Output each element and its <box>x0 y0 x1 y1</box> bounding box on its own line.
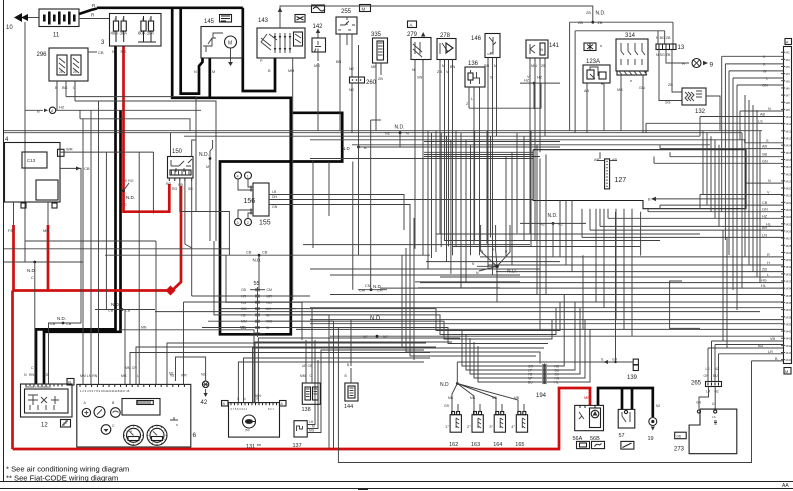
wire bus y154 <box>424 154 533 156</box>
svg-text:136: 136 <box>468 61 479 67</box>
wire thick drop to 143 pin B <box>243 8 275 91</box>
wire drop x153 <box>152 152 154 213</box>
svg-text:CB: CB <box>246 251 252 255</box>
svg-text:MG: MG <box>267 320 273 324</box>
svg-text:MG: MG <box>309 429 315 433</box>
svg-text:BG: BG <box>62 86 68 90</box>
unit4 bottom pins <box>13 221 15 224</box>
svg-text:HZ: HZ <box>524 79 530 83</box>
icon box 255 M <box>360 5 371 12</box>
svg-text:11: 11 <box>53 33 60 39</box>
wire feed V y194 <box>700 194 784 196</box>
svg-text:60A: 60A <box>138 31 146 36</box>
svg-text:R: R <box>68 380 71 385</box>
wire feed BR y230 <box>590 229 784 231</box>
svg-text:M29: M29 <box>786 251 792 255</box>
svg-text:MM: MM <box>300 374 306 378</box>
svg-text:164: 164 <box>493 442 502 448</box>
svg-text:HR: HR <box>241 295 247 299</box>
svg-text:VB: VB <box>770 337 776 341</box>
svg-text:CB: CB <box>762 201 768 205</box>
svg-text:DH: DH <box>272 195 278 199</box>
wire feed N y183 <box>746 182 784 184</box>
junction K RG on red wire <box>122 189 125 192</box>
wire 150 CB down right <box>180 181 230 255</box>
svg-text:0 7 6 5 4 3 2 1: 0 7 6 5 4 3 2 1 <box>231 407 248 411</box>
svg-text:M25: M25 <box>786 222 792 226</box>
145 ground pin <box>230 48 232 62</box>
wires left of 194 <box>462 330 536 366</box>
junction node B <box>357 146 360 149</box>
svg-text:163: 163 <box>471 442 480 448</box>
lamp 9 <box>692 59 701 68</box>
icon boxes beside 131 <box>222 401 229 407</box>
wire echelon 4 <box>265 328 548 344</box>
svg-text:M: M <box>228 41 232 47</box>
svg-text:GN: GN <box>762 208 768 212</box>
svg-text:M: M <box>442 64 445 68</box>
wire feed y353 <box>719 353 784 355</box>
svg-text:WR: WR <box>66 147 73 152</box>
svg-text:3: 3 <box>237 221 239 225</box>
svg-text:R: R <box>767 253 770 257</box>
svg-text:M: M <box>785 369 788 374</box>
svg-text:RG: RG <box>166 182 172 186</box>
143 internals crosshatch <box>261 34 277 50</box>
svg-text:MG: MG <box>314 64 320 68</box>
svg-text:N2: N2 <box>169 372 174 376</box>
wire feed SB y156 <box>670 156 784 158</box>
svg-text:N.D.: N.D. <box>57 316 66 321</box>
svg-text:SN: SN <box>417 76 423 80</box>
wire echelon 5 <box>402 255 544 348</box>
icon box A top <box>408 21 417 28</box>
svg-text:1°: 1° <box>445 424 449 429</box>
svg-text:Km: Km <box>128 429 133 433</box>
wire 132 right <box>706 96 720 131</box>
svg-text:30A: 30A <box>120 31 128 36</box>
icon box 123A <box>584 43 596 51</box>
svg-text:FB: FB <box>8 228 13 233</box>
screw terminal 42 <box>202 381 208 387</box>
wire feed y341 <box>712 340 784 342</box>
wire red relay 150 pin RG down to junction <box>171 186 182 291</box>
wire red from unit 4 left pin down to bottom bus <box>12 225 15 291</box>
145 internals: coil and motor <box>225 36 237 48</box>
icon box 57 <box>621 441 634 449</box>
svg-text:GN: GN <box>639 86 645 90</box>
svg-text:** See Fiat-CODE wiring diagra: ** See Fiat-CODE wiring diagram <box>6 474 118 483</box>
svg-text:M21: M21 <box>786 194 792 198</box>
svg-text:GN: GN <box>762 84 768 88</box>
wire bundle right more <box>702 131 704 195</box>
svg-text:06: 06 <box>677 434 682 439</box>
junction CB ND <box>105 254 430 256</box>
cluster gauge clock <box>94 407 105 418</box>
svg-text:M42: M42 <box>786 344 792 348</box>
wire thin x352 <box>352 162 354 290</box>
unit 273 <box>689 409 737 454</box>
svg-text:A: A <box>410 23 413 28</box>
wire feed y312 <box>155 311 760 313</box>
unit 142 <box>312 38 326 52</box>
svg-text:57: 57 <box>619 433 625 439</box>
svg-text:139: 139 <box>627 375 638 381</box>
svg-text:BN: BN <box>336 60 342 64</box>
svg-text:G: G <box>124 203 127 207</box>
relay 145 <box>201 27 243 59</box>
wire verticals x410 <box>410 223 536 356</box>
junction star ND <box>481 225 497 266</box>
146 pins <box>487 58 489 61</box>
svg-text:M34: M34 <box>786 287 792 291</box>
wire thick fuse N down left side <box>36 46 116 384</box>
terminal 19 <box>649 418 657 426</box>
svg-text:N.D.: N.D. <box>395 125 405 131</box>
svg-text:GR: GR <box>444 404 450 408</box>
cluster odometer box <box>122 399 160 416</box>
svg-text:CN: CN <box>365 284 371 288</box>
svg-text:N.D.: N.D. <box>253 258 262 263</box>
svg-text:M7: M7 <box>786 94 790 98</box>
wire feed L y277 <box>440 276 784 278</box>
circled pins 3 2 <box>235 219 242 226</box>
svg-text:19: 19 <box>648 436 654 442</box>
icon box in unit 4 <box>58 149 65 156</box>
svg-text:GN: GN <box>696 401 702 405</box>
svg-text:M16: M16 <box>786 158 792 162</box>
svg-text:M13: M13 <box>786 137 792 141</box>
wire unit4 CB right <box>60 168 81 323</box>
svg-text:b: b <box>150 17 152 21</box>
wire echelon 6 <box>406 248 540 364</box>
wire feed ZB y271 <box>496 271 784 273</box>
wire 296 pin B down <box>56 81 58 84</box>
injector 165 <box>516 415 527 433</box>
svg-text:M26: M26 <box>786 229 792 233</box>
wire ZB right branch down <box>672 22 674 44</box>
ground arrow 10 <box>14 13 22 22</box>
svg-text:10: 10 <box>6 25 13 31</box>
svg-text:CB: CB <box>98 50 104 55</box>
svg-text:M: M <box>494 64 497 68</box>
svg-text:131 **: 131 ** <box>246 444 262 450</box>
wire feed GN y211 <box>648 211 784 213</box>
svg-text:145: 145 <box>204 19 215 25</box>
svg-text:MM: MM <box>288 69 294 73</box>
circled pins 4 1 <box>235 172 242 179</box>
svg-text:(M): (M) <box>245 428 250 432</box>
svg-text:SG: SG <box>665 101 671 105</box>
svg-text:ZB: ZB <box>541 64 546 68</box>
wire feed y336 <box>330 335 784 337</box>
wire drop x139 <box>138 152 140 384</box>
svg-text:N2: N2 <box>656 404 660 408</box>
143 pin MM down <box>292 58 294 300</box>
coil unit 138 <box>302 383 320 404</box>
svg-text:MR: MR <box>267 295 273 299</box>
unit 57 <box>618 409 635 428</box>
svg-text:N2: N2 <box>385 132 390 136</box>
wire drop x106 <box>105 152 107 309</box>
wire battery to fuse box R <box>79 9 97 15</box>
12 top pins <box>25 384 27 387</box>
wire bus y156 <box>424 156 540 158</box>
svg-text:RG: RG <box>121 49 127 54</box>
wire C y101 <box>75 101 216 241</box>
svg-text:*: * <box>630 80 632 86</box>
svg-text:194: 194 <box>536 393 547 399</box>
svg-text:BR: BR <box>762 226 768 230</box>
svg-text:AR: AR <box>762 145 768 149</box>
wire 150 SB down <box>185 181 192 248</box>
wire thick drop x172 to main feed <box>172 8 342 335</box>
svg-text:N: N <box>194 70 197 74</box>
svg-text:GR: GR <box>612 358 618 362</box>
svg-text:*: * <box>601 83 603 89</box>
svg-text:K RG: K RG <box>125 179 134 183</box>
wires above 265 <box>707 348 709 382</box>
svg-text:143: 143 <box>258 18 269 24</box>
svg-text:N2: N2 <box>349 88 354 92</box>
svg-text:N: N <box>112 49 115 54</box>
connector strip A right <box>784 47 792 364</box>
273 pins <box>697 410 700 413</box>
svg-text:N2: N2 <box>363 335 368 339</box>
wire y30 branch <box>574 31 576 133</box>
svg-text:ZB: ZB <box>578 21 583 25</box>
control unit 4 <box>5 143 61 203</box>
svg-text:C: C <box>31 276 34 280</box>
icon box 145 <box>220 15 232 23</box>
wire mesh center horizontals <box>436 233 700 235</box>
junction N2 y336 <box>376 335 379 338</box>
svg-text:MN: MN <box>141 326 147 330</box>
wire from arrow 10 down <box>24 22 26 262</box>
svg-text:SB: SB <box>762 153 768 157</box>
svg-text:M17: M17 <box>786 165 792 169</box>
wire thin x329 <box>328 162 330 217</box>
143 top arrow <box>279 9 281 28</box>
resistor unit 132 <box>682 88 706 105</box>
instrument cluster 6 <box>77 384 191 447</box>
svg-text:138: 138 <box>302 407 311 413</box>
wire 13 to lamp 9 <box>666 50 689 64</box>
wire feed HG y282 <box>420 282 784 284</box>
svg-text:*: * <box>600 45 602 51</box>
wire feed R y257 <box>480 256 784 258</box>
wire feed B y361 <box>752 360 784 362</box>
svg-text:M11: M11 <box>786 122 792 126</box>
svg-text:c: c <box>142 17 144 21</box>
wire feed AB y116 <box>700 116 784 118</box>
wire mesh center verticals <box>539 159 541 331</box>
wire feed S y142 <box>745 142 784 144</box>
wire bundle right extra <box>744 95 746 257</box>
injector 164 <box>494 415 505 433</box>
svg-text:M14: M14 <box>786 144 792 148</box>
56 top pins <box>579 405 581 408</box>
symbol 142 arrow <box>317 31 319 38</box>
wire feed y300 <box>184 301 784 303</box>
svg-text:L: L <box>767 273 769 277</box>
svg-text:CM: CM <box>241 307 247 311</box>
injector feed diagonals <box>452 384 457 415</box>
137 right pins <box>307 340 315 425</box>
icon box B left of cluster <box>67 379 74 386</box>
svg-text:N SG ZB: N SG ZB <box>656 53 671 57</box>
svg-text:v: v <box>176 422 178 427</box>
svg-text:M43: M43 <box>786 351 792 355</box>
svg-text:L: L <box>471 97 473 101</box>
wire y244 <box>303 244 530 246</box>
wire bracket x669 <box>670 281 700 328</box>
icon box A <box>785 39 792 45</box>
wire 296 pin C down <box>74 81 76 84</box>
svg-text:123A: 123A <box>586 59 600 65</box>
wire right lower verticals <box>722 230 724 341</box>
icon boxes below 56 <box>577 441 590 448</box>
svg-text:L: L <box>766 77 768 81</box>
cluster fuel pump symbol <box>101 425 111 435</box>
switch unit 143 <box>257 28 305 58</box>
svg-text:N.D: N.D <box>342 146 351 151</box>
svg-text:M41: M41 <box>786 337 792 341</box>
svg-text:GN: GN <box>272 205 278 209</box>
svg-text:M: M <box>267 313 270 317</box>
wire feed LN y237 <box>582 236 784 238</box>
svg-text:265: 265 <box>691 381 702 387</box>
wire 255 N2 down through 260 <box>351 34 353 77</box>
wire thin x313 <box>312 160 314 248</box>
wire bus y139 <box>310 139 746 141</box>
svg-text:MM: MM <box>241 320 247 324</box>
svg-text:141: 141 <box>549 43 560 49</box>
150 pins bottom <box>168 178 170 181</box>
wire bus y141 <box>424 141 560 143</box>
svg-text:M5: M5 <box>786 79 790 83</box>
wire echelon 1 <box>265 302 590 331</box>
wire BG y96 <box>66 97 196 212</box>
279 pins <box>414 60 416 63</box>
wire red bottom bus to ignition 56 <box>13 388 591 449</box>
svg-text:M20: M20 <box>786 187 792 191</box>
border frame left <box>3 0 5 481</box>
svg-text:M24: M24 <box>786 215 792 219</box>
svg-text:N2: N2 <box>383 335 388 339</box>
svg-text:A B C: A B C <box>487 52 494 56</box>
wire red from unit 4 right pin <box>47 225 50 291</box>
relay unit 296 <box>49 48 88 81</box>
wire mesh extra horizontals <box>426 261 560 263</box>
tiny mark bottom middle <box>358 489 368 491</box>
svg-text:2: 2 <box>466 102 468 106</box>
svg-text:M15: M15 <box>786 151 792 155</box>
svg-text:6: 6 <box>193 432 197 439</box>
svg-text:12: 12 <box>41 423 48 429</box>
svg-text:ZB: ZB <box>586 11 591 15</box>
svg-text:314: 314 <box>625 33 636 39</box>
svg-text:335: 335 <box>371 32 382 38</box>
injector 163 <box>472 415 483 433</box>
wire ZB left branch down <box>569 22 571 131</box>
svg-text:M3: M3 <box>786 65 790 69</box>
svg-text:MB: MB <box>470 396 476 400</box>
svg-text:260: 260 <box>366 80 377 86</box>
wire feed y294 <box>330 294 784 296</box>
wire bus y132 <box>4 132 742 134</box>
svg-text:LB: LB <box>272 190 277 194</box>
icon box 12 <box>61 420 71 428</box>
svg-text:MN: MN <box>531 64 537 68</box>
wire feed AR y148 <box>660 148 784 150</box>
svg-text:N.D.: N.D. <box>548 213 558 219</box>
svg-text:CB: CB <box>262 251 268 255</box>
svg-text:137: 137 <box>293 443 302 449</box>
relay 255 <box>336 17 357 34</box>
svg-text:30A: 30A <box>147 31 155 36</box>
svg-text:M18: M18 <box>786 172 792 176</box>
svg-text:UD CB: UD CB <box>302 364 313 368</box>
svg-text:4°: 4° <box>511 424 515 429</box>
svg-text:155: 155 <box>259 220 271 227</box>
svg-text:MM CN: MM CN <box>125 366 137 370</box>
svg-text:HZ: HZ <box>59 105 65 110</box>
svg-text:SB: SB <box>188 187 193 191</box>
svg-text:MB: MB <box>371 65 377 69</box>
svg-text:MN: MN <box>240 326 246 330</box>
svg-text:L: L <box>137 374 139 378</box>
wire red from fuse 3 RG to relay 150 <box>124 46 170 212</box>
svg-text:A: A <box>786 40 789 45</box>
svg-text:4: 4 <box>237 175 239 179</box>
svg-text:M: M <box>362 7 366 12</box>
278 pins <box>439 59 441 62</box>
injector 162 <box>450 415 461 433</box>
wire y241 left <box>25 240 156 242</box>
svg-text:M44: M44 <box>786 358 792 362</box>
svg-text:M8: M8 <box>786 101 790 105</box>
strip pins <box>781 51 785 53</box>
svg-text:N.D.: N.D. <box>111 302 120 307</box>
svg-text:ZB: ZB <box>598 21 603 25</box>
wire AR up from 127 <box>599 152 601 159</box>
ECU outline 127 area <box>533 150 746 209</box>
wires left of 55 <box>192 295 250 297</box>
svg-text:HG: HG <box>761 279 767 283</box>
wire bus y144 <box>352 144 710 146</box>
155 pin wires <box>238 179 253 190</box>
cluster gauge fuel <box>111 408 121 418</box>
svg-text:86: 86 <box>348 28 352 32</box>
wire under bottom red bus <box>338 328 751 463</box>
icon box 143 <box>295 15 305 23</box>
svg-text:H: H <box>767 261 770 265</box>
unit 156 box <box>253 183 269 216</box>
wire feed HZ y218 <box>608 217 784 219</box>
wire HZ y110 <box>56 109 201 111</box>
wire bus y158 <box>310 158 533 160</box>
svg-text:M: M <box>206 165 209 169</box>
connector 260 <box>350 77 365 83</box>
svg-text:N2: N2 <box>349 67 354 71</box>
arrow B continuation <box>651 197 656 201</box>
svg-text:* See air conditioning wiring: * See air conditioning wiring diagram <box>6 465 129 474</box>
svg-text:M9: M9 <box>786 108 790 112</box>
svg-text:M28: M28 <box>786 244 792 248</box>
svg-text:N: N <box>768 107 771 111</box>
wire unit4 WR right <box>60 151 153 153</box>
